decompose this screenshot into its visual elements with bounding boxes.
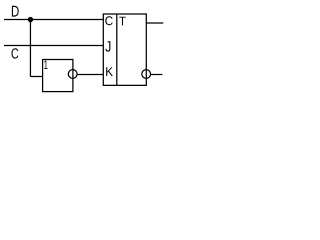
flip-flop U1 box	[103, 14, 146, 85]
pin label C	[105, 16, 112, 25]
node D label	[12, 6, 19, 17]
inverter label 1	[44, 60, 47, 69]
inverter U2 box	[43, 60, 73, 92]
wire Q output	[146, 22, 163, 24]
pin label J	[105, 41, 110, 52]
wire Q-bar output	[151, 74, 162, 76]
junction dot on D wire	[28, 17, 33, 22]
flip-flop inverted output bubble	[142, 70, 151, 79]
wire inverter output to flip-flop K pin	[78, 74, 104, 76]
flip-flop divider line	[116, 14, 118, 85]
wire D input to flip-flop C pin	[4, 19, 103, 21]
wire connector into inverter left edge	[30, 76, 42, 78]
wire C input to flip-flop J pin	[4, 45, 103, 47]
block label T	[119, 17, 125, 26]
pin label K	[106, 67, 113, 76]
node C label	[12, 48, 19, 58]
wire vertical drop from D junction	[29, 20, 31, 77]
inverter output bubble	[68, 70, 77, 79]
